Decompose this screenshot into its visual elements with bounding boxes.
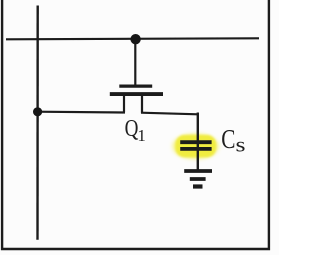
svg-text:s: s <box>236 133 246 157</box>
svg-text:Q: Q <box>125 116 139 142</box>
svg-text:C: C <box>221 124 235 154</box>
svg-text:1: 1 <box>137 126 146 145</box>
